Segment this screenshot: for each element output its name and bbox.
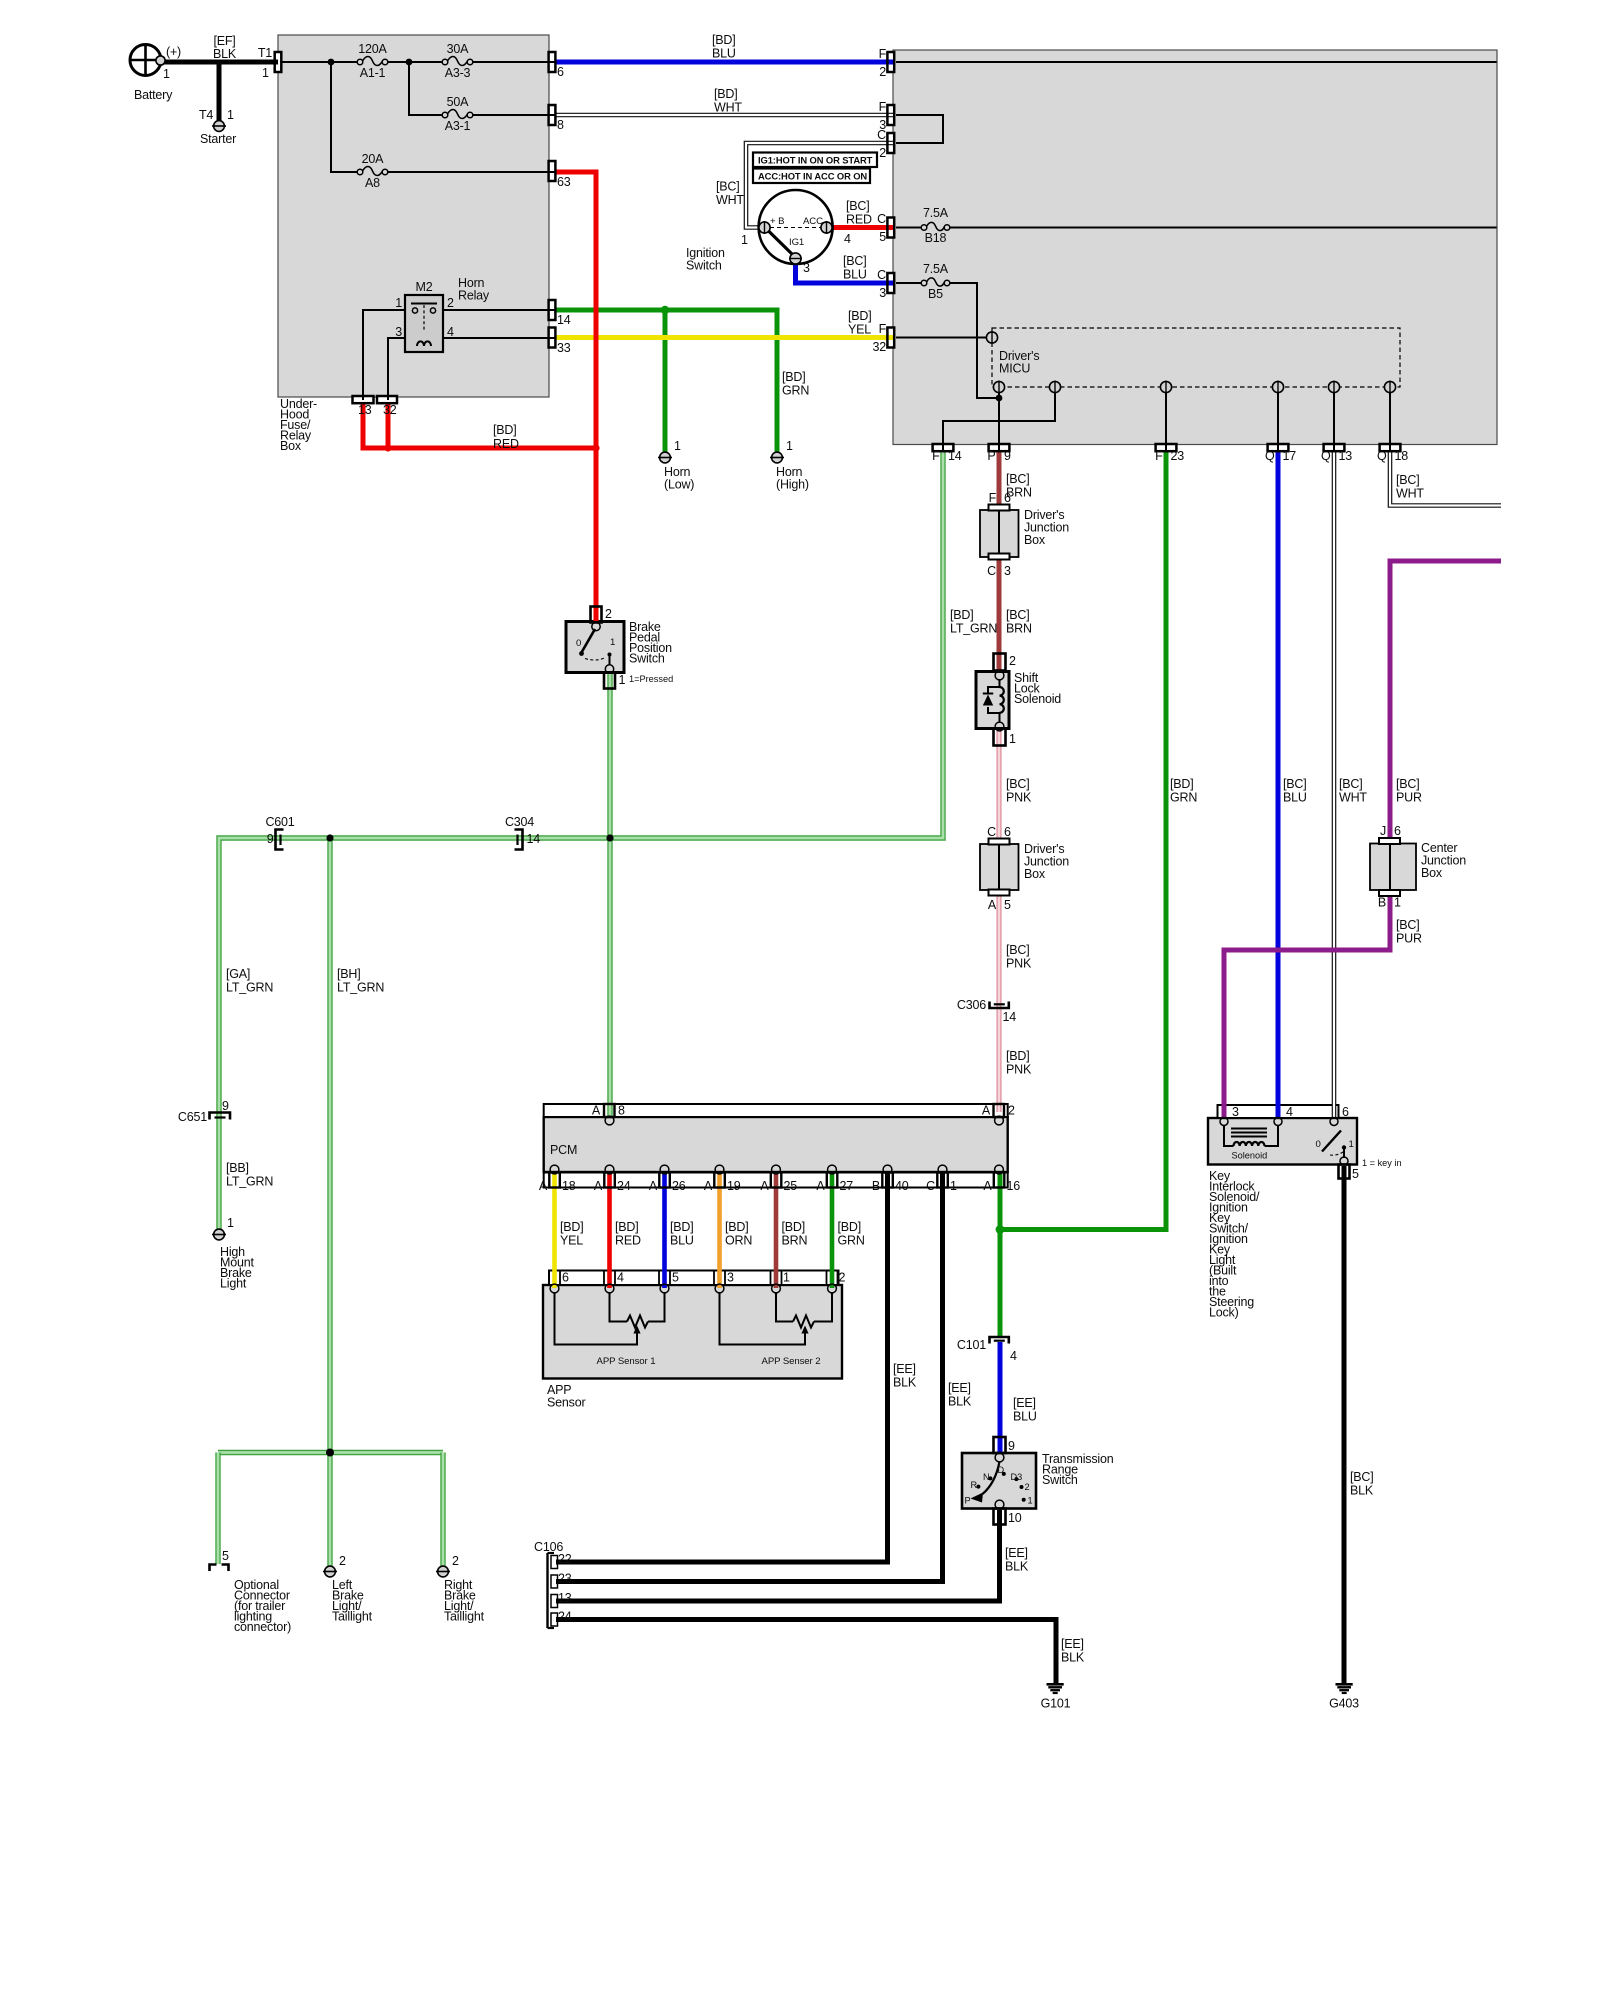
svg-text:Solenoid: Solenoid xyxy=(1232,1151,1268,1161)
node: lt green junction at brake light crossbar xyxy=(326,1449,334,1457)
svg-text:9: 9 xyxy=(1004,449,1011,463)
svg-text:B: B xyxy=(1378,896,1386,910)
svg-text:Taillight: Taillight xyxy=(332,1610,373,1624)
wire [BD] GRN: connector 14 to horns xyxy=(556,310,778,452)
svg-text:3: 3 xyxy=(1232,1105,1239,1119)
wire [BC] BLK: key interlock pin 5 to ground G403 xyxy=(1342,1166,1347,1683)
svg-text:[EF]: [EF] xyxy=(213,34,235,48)
svg-text:[EE]: [EE] xyxy=(1061,1637,1084,1651)
svg-text:27: 27 xyxy=(840,1179,854,1193)
svg-text:BLU: BLU xyxy=(712,47,736,61)
svg-text:BLK: BLK xyxy=(1350,1484,1374,1498)
svg-text:1: 1 xyxy=(395,296,402,310)
svg-text:4: 4 xyxy=(1010,1349,1017,1363)
diode xyxy=(983,695,993,706)
wire: optional connector drop xyxy=(215,1453,220,1565)
svg-text:P: P xyxy=(987,449,995,463)
right brake light terminal xyxy=(438,1566,449,1577)
PCM bottom connector A25 xyxy=(771,1173,782,1188)
driver's junction box (upper) xyxy=(980,510,1019,557)
ignition note box 1 xyxy=(753,153,877,168)
high mount brake light terminal xyxy=(214,1229,225,1240)
optional connector bracket xyxy=(210,1565,217,1572)
svg-text:3: 3 xyxy=(727,1271,734,1285)
PCM top connector A8 xyxy=(604,1104,615,1117)
svg-text:Box: Box xyxy=(1024,867,1046,881)
svg-text:F: F xyxy=(1155,449,1163,463)
svg-text:4: 4 xyxy=(617,1271,624,1285)
APP sensor 1 wiper xyxy=(555,1292,638,1345)
svg-text:C651: C651 xyxy=(178,1110,207,1124)
svg-text:WHT: WHT xyxy=(714,101,742,115)
wire: brake pedal switch output lt green xyxy=(607,674,612,1116)
shift lock connector 1 xyxy=(994,729,1006,746)
svg-text:[BD]: [BD] xyxy=(725,1220,749,1234)
svg-text:YEL: YEL xyxy=(848,323,871,337)
APP sensor 2 wiper xyxy=(720,1292,806,1345)
svg-text:BRN: BRN xyxy=(1006,622,1032,636)
svg-text:C101: C101 xyxy=(957,1338,986,1352)
fuse 7.5A B5 xyxy=(921,280,927,286)
key interlock solenoid leads xyxy=(1224,1126,1234,1147)
svg-text:A: A xyxy=(704,1179,713,1193)
node: junction B5 line and P9 stem xyxy=(996,395,1003,402)
connector Q13 slot border xyxy=(1324,444,1345,451)
svg-text:PUR: PUR xyxy=(1396,791,1422,805)
svg-text:20A: 20A xyxy=(362,152,385,166)
svg-text:F: F xyxy=(932,449,940,463)
svg-text:[BD]: [BD] xyxy=(950,608,974,622)
connector F23 slot border xyxy=(1156,444,1177,451)
connector C2 slot fill xyxy=(887,133,894,153)
svg-text:BLU: BLU xyxy=(670,1234,694,1248)
wire [BD] RED: connector 13 branch xyxy=(363,403,596,448)
connector 63 slot border xyxy=(549,161,556,181)
connector F2 slot fill xyxy=(887,52,894,72)
PCM bottom connector A27 xyxy=(827,1173,838,1188)
svg-text:[EE]: [EE] xyxy=(893,1362,916,1376)
svg-text:6: 6 xyxy=(557,65,564,79)
svg-text:[BH]: [BH] xyxy=(337,967,361,981)
svg-text:4: 4 xyxy=(447,325,454,339)
svg-text:RED: RED xyxy=(615,1234,641,1248)
wire: inside lower junction box xyxy=(998,845,1000,890)
svg-text:8: 8 xyxy=(618,1104,625,1118)
svg-text:9: 9 xyxy=(1008,1439,1015,1453)
node: lt green junction at brake switch riser xyxy=(606,834,613,841)
battery terminal xyxy=(156,56,165,65)
svg-text:[BD]: [BD] xyxy=(782,370,806,384)
key interlock solenoid core xyxy=(1231,1128,1267,1130)
svg-text:C306: C306 xyxy=(957,998,986,1012)
APP sensor pin circles xyxy=(550,1284,559,1293)
svg-text:Relay: Relay xyxy=(458,289,490,303)
svg-text:[EE]: [EE] xyxy=(948,1381,971,1395)
svg-text:A: A xyxy=(760,1179,769,1193)
APP connector pin slots xyxy=(548,1272,550,1285)
svg-text:18: 18 xyxy=(562,1179,576,1193)
svg-text:Q: Q xyxy=(1321,449,1331,463)
svg-text:[BD]: [BD] xyxy=(1006,1049,1030,1063)
svg-text:ORN: ORN xyxy=(725,1234,752,1248)
horn relay M2 coil xyxy=(417,341,431,346)
connector 14 slot fill xyxy=(549,300,556,320)
MICU terminal (yellow F32) xyxy=(986,332,997,343)
svg-text:1: 1 xyxy=(1394,896,1401,910)
svg-text:1: 1 xyxy=(262,66,269,80)
svg-text:C: C xyxy=(926,1179,935,1193)
node: horn wire junction xyxy=(661,306,669,314)
connector F14 slot border xyxy=(933,444,954,451)
svg-text:J: J xyxy=(1380,824,1386,838)
shift lock coil xyxy=(1000,687,1004,713)
connector Q13 slot fill xyxy=(1324,444,1345,451)
connector Q17 slot fill xyxy=(1268,444,1289,451)
wire [BC] WHT: Q18 to right edge xyxy=(1390,451,1501,506)
svg-text:2: 2 xyxy=(452,1554,459,1568)
connector C2 slot border xyxy=(887,133,894,153)
svg-text:Lock): Lock) xyxy=(1209,1306,1239,1320)
wire: MICU terminal 2 to F14 xyxy=(943,393,1055,451)
connector P9 slot fill xyxy=(989,444,1010,451)
horn relay M2 box xyxy=(405,295,443,352)
APP sensor connector bar xyxy=(549,1271,839,1286)
wire: fuse B5 line from C3 xyxy=(896,282,921,284)
svg-text:F: F xyxy=(879,100,887,114)
svg-text:[BD]: [BD] xyxy=(848,309,872,323)
PCM bottom connector B40 xyxy=(882,1173,893,1188)
PCM pin circles top xyxy=(605,1116,614,1125)
connector 13 slot border xyxy=(353,396,374,403)
wire [BC] BRN: P9 to driver's junction box F6 xyxy=(997,451,1002,506)
key interlock solenoid/ignition key switch box xyxy=(1208,1118,1357,1165)
wire [BD] LT_GRN: F14 down and across to C601/C304 xyxy=(219,451,943,1235)
svg-text:F: F xyxy=(879,322,887,336)
svg-text:BLK: BLK xyxy=(1061,1651,1085,1665)
wire [BC] WHT: C2 to ignition switch pin 1 xyxy=(746,143,893,228)
svg-text:LT_GRN: LT_GRN xyxy=(226,981,273,995)
svg-text:APP Senser 2: APP Senser 2 xyxy=(762,1356,821,1367)
wire [EE] BLK: PCM C1 to C106 pin 23 xyxy=(556,1174,943,1582)
shift lock connector 2 xyxy=(994,654,1006,671)
svg-text:Taillight: Taillight xyxy=(444,1610,485,1624)
junction box slot F6 xyxy=(989,505,1010,511)
connector C3 ignition slot fill xyxy=(887,273,894,293)
ignition switch lever xyxy=(766,229,793,256)
svg-text:C: C xyxy=(877,268,886,282)
svg-text:GRN: GRN xyxy=(838,1234,865,1248)
wire [BD] YEL: PCM A18 to APP pin 6 xyxy=(552,1174,557,1288)
fuse 30A A3-3 xyxy=(442,59,448,65)
svg-text:A: A xyxy=(983,1179,992,1193)
connector 6 box edge slot border xyxy=(549,52,556,72)
svg-text:13: 13 xyxy=(1339,449,1353,463)
svg-text:1 = key in: 1 = key in xyxy=(1362,1158,1402,1168)
svg-text:[BD]: [BD] xyxy=(714,87,738,101)
svg-text:[EE]: [EE] xyxy=(1013,1396,1036,1410)
svg-text:BLU: BLU xyxy=(1283,791,1307,805)
svg-text:14: 14 xyxy=(948,449,962,463)
wire [EE] BLU: C101 to transmission range switch pin 9 xyxy=(998,1342,1003,1454)
node: green junction A16/F23 xyxy=(996,1225,1005,1234)
wire [BD] BLU: PCM A26 to APP pin 5 xyxy=(662,1174,667,1288)
svg-text:D3: D3 xyxy=(1011,1472,1023,1482)
svg-text:2: 2 xyxy=(339,1554,346,1568)
svg-text:[BD]: [BD] xyxy=(493,423,517,437)
PCM bottom connector A16 xyxy=(994,1173,1005,1188)
wire [BC]/[BD] PNK: A5 to PCM A2 through C306 xyxy=(997,890,1002,1112)
svg-text:[BB]: [BB] xyxy=(226,1161,249,1175)
connector F32 slot fill xyxy=(887,328,894,348)
node: red junction at riser xyxy=(592,444,599,451)
fuse 50A A3-1 xyxy=(442,112,448,118)
wire: brake light crossbar xyxy=(218,1450,443,1455)
svg-text:B: B xyxy=(872,1179,880,1193)
connector Q18 slot fill xyxy=(1380,444,1401,451)
connector C5 slot fill xyxy=(887,218,894,238)
wire: MICU terminal stem to Q17 xyxy=(1277,393,1279,451)
svg-text:[BC]: [BC] xyxy=(1006,777,1030,791)
svg-text:24: 24 xyxy=(558,1610,572,1624)
wire: MICU terminal stem to Q18 xyxy=(1389,393,1391,451)
connector 32 slot fill xyxy=(377,396,397,403)
connector C3 ignition slot border xyxy=(887,273,894,293)
svg-text:3: 3 xyxy=(803,261,810,275)
wire [BD] BRN: PCM A25 to APP pin 1 xyxy=(774,1174,779,1288)
svg-text:7.5A: 7.5A xyxy=(923,206,949,220)
svg-text:Switch: Switch xyxy=(1042,1473,1078,1487)
fuse 7.5A B18 xyxy=(921,225,927,231)
svg-text:Q: Q xyxy=(1265,449,1275,463)
wire: F32 to MICU terminal xyxy=(896,337,987,339)
brake switch pivot circle xyxy=(592,622,600,630)
wire [BD] GRN: PCM A16 to C101 xyxy=(998,1174,1003,1338)
wire: battery branch down to starter xyxy=(217,60,222,122)
svg-text:3: 3 xyxy=(1004,564,1011,578)
svg-text:F: F xyxy=(989,491,997,505)
wire: 20A fuse to connector 63 xyxy=(388,171,555,173)
svg-text:[BC]: [BC] xyxy=(1006,472,1030,486)
svg-text:N: N xyxy=(983,1472,990,1482)
wire [BD] WHT: connector 8 to F3 xyxy=(556,113,894,118)
connector F3 slot fill xyxy=(887,105,894,125)
svg-text:[BC]: [BC] xyxy=(716,180,740,194)
TRS pin 10 circle xyxy=(995,1500,1004,1509)
svg-text:C: C xyxy=(877,212,886,226)
svg-text:PCM: PCM xyxy=(550,1143,577,1157)
wire: horn relay pin2 to connector 14 xyxy=(443,309,555,311)
svg-text:BLK: BLK xyxy=(1005,1560,1029,1574)
driver's MICU dashed outline xyxy=(992,328,1400,387)
svg-text:F: F xyxy=(879,47,887,61)
PCM bottom connector A18 xyxy=(549,1173,560,1188)
svg-text:LT_GRN: LT_GRN xyxy=(337,981,384,995)
wire [EE] BLK: PCM B40 to C106 pin 22 xyxy=(556,1174,888,1562)
APP sensor 2 resistor xyxy=(776,1292,793,1322)
wire [BC] BLU: ignition IG1 to C3 xyxy=(796,260,894,283)
wire [BC] WHT: Q13 to key interlock pin 6 xyxy=(1332,451,1337,1118)
svg-text:[BC]: [BC] xyxy=(1006,608,1030,622)
key interlock solenoid coil xyxy=(1234,1142,1265,1146)
ignition switch body xyxy=(759,190,833,264)
connector F23 slot fill xyxy=(1156,444,1177,451)
PCM top connector bar xyxy=(544,1104,1008,1117)
MICU terminal 3 xyxy=(1160,381,1171,392)
node: bus junction at 30A xyxy=(406,59,413,66)
svg-text:2: 2 xyxy=(1009,654,1016,668)
svg-text:Box: Box xyxy=(1024,533,1046,547)
wire: 30A fuse to connector 6 xyxy=(473,61,555,63)
svg-text:+ B: + B xyxy=(770,216,784,227)
driver's junction box (lower) xyxy=(980,844,1019,890)
svg-text:63: 63 xyxy=(557,175,571,189)
connector 33 slot border xyxy=(549,328,556,348)
svg-text:1=Pressed: 1=Pressed xyxy=(629,674,673,684)
connector C306 xyxy=(990,1002,1009,1009)
wire: horn relay pin3 to connector 32 xyxy=(388,338,405,400)
ignition terminal pin1 xyxy=(759,222,770,233)
connector T1 slot fill xyxy=(275,52,282,72)
svg-text:14: 14 xyxy=(527,832,541,846)
svg-text:PNK: PNK xyxy=(1006,791,1032,805)
PCM top connector A2 xyxy=(994,1104,1005,1117)
svg-text:R: R xyxy=(971,1480,978,1490)
brake switch lever xyxy=(582,629,596,653)
wire [BD] ORN: PCM A19 to APP pin 3 xyxy=(717,1174,722,1288)
wire: bus from F2 inside box xyxy=(896,61,1497,63)
svg-text:WHT: WHT xyxy=(1339,791,1367,805)
connector 33 slot fill xyxy=(549,328,556,348)
svg-text:Starter: Starter xyxy=(200,132,236,146)
svg-text:6: 6 xyxy=(1394,824,1401,838)
connector 8 slot fill xyxy=(549,105,556,125)
transmission range switch box xyxy=(962,1453,1036,1509)
connector 6 box edge slot fill xyxy=(549,52,556,72)
battery symbol xyxy=(130,45,161,76)
svg-text:Box: Box xyxy=(280,439,302,453)
MICU terminal 6 xyxy=(1384,381,1395,392)
svg-text:23: 23 xyxy=(558,1572,572,1586)
svg-text:BLU: BLU xyxy=(843,268,867,282)
svg-text:A: A xyxy=(649,1179,658,1193)
svg-text:18: 18 xyxy=(1395,449,1409,463)
center junction box slot B1 xyxy=(1379,890,1400,896)
wire [BC] PUR: right edge to center junction box J6 xyxy=(1390,561,1501,845)
svg-text:GRN: GRN xyxy=(782,384,809,398)
wire: fuse B18 line from C5 xyxy=(896,227,921,229)
svg-text:19: 19 xyxy=(727,1179,741,1193)
svg-text:2: 2 xyxy=(879,65,886,79)
key interlock pin circles xyxy=(1220,1118,1228,1126)
svg-text:4: 4 xyxy=(844,232,851,246)
junction box slot C3 xyxy=(989,554,1010,560)
wire [EE] BLK: TRS pin 10 to C106 pin 13 xyxy=(556,1510,1000,1601)
svg-text:2: 2 xyxy=(1008,1104,1015,1118)
svg-text:C304: C304 xyxy=(505,815,534,829)
svg-text:A3-1: A3-1 xyxy=(445,119,471,133)
svg-text:B18: B18 xyxy=(925,231,947,245)
svg-text:T1: T1 xyxy=(258,46,272,60)
node: bus junction at 120A xyxy=(328,59,335,66)
connector C101 xyxy=(990,1337,1009,1344)
svg-text:6: 6 xyxy=(1342,1105,1349,1119)
wire: branch to 20A fuse xyxy=(331,62,357,172)
TRS position dots xyxy=(976,1485,980,1489)
svg-text:ACC: ACC xyxy=(803,216,823,227)
wire [BH] LT_GRN: branch down to brake lights xyxy=(327,838,332,1570)
fuse 120A A1-1 xyxy=(357,59,363,65)
under-dash fuse/relay box xyxy=(893,50,1497,445)
svg-text:A8: A8 xyxy=(365,176,380,190)
svg-text:Q: Q xyxy=(1377,449,1387,463)
svg-text:BRN: BRN xyxy=(782,1234,808,1248)
key interlock switch lever xyxy=(1322,1131,1341,1152)
svg-text:Box: Box xyxy=(1421,866,1443,880)
wire [EE] BLK: C106 pin 24 to ground G101 xyxy=(556,1620,1056,1684)
svg-text:LT_GRN: LT_GRN xyxy=(950,622,997,636)
wire [BD] GRN: PCM A27 to APP pin 2 xyxy=(830,1174,835,1288)
svg-text:0: 0 xyxy=(1316,1139,1321,1150)
svg-text:1: 1 xyxy=(227,1216,234,1230)
connector C304 xyxy=(515,830,523,850)
svg-text:[BD]: [BD] xyxy=(712,33,736,47)
svg-text:(High): (High) xyxy=(776,478,809,492)
svg-text:A3-3: A3-3 xyxy=(445,66,471,80)
svg-text:BLU: BLU xyxy=(1013,1410,1037,1424)
wire [BC] PNK: shift lock pin1 to C6 xyxy=(997,730,1002,845)
svg-text:ACC:HOT IN ACC OR ON: ACC:HOT IN ACC OR ON xyxy=(758,171,867,182)
connector F32 slot border xyxy=(887,328,894,348)
wire: MICU terminal 1 stem to P9 xyxy=(998,393,1000,451)
shift lock solenoid internals: top lead xyxy=(995,671,1004,680)
svg-text:connector): connector) xyxy=(234,1620,291,1634)
svg-text:(+): (+) xyxy=(166,45,181,59)
svg-text:A1-1: A1-1 xyxy=(360,66,386,80)
svg-text:32: 32 xyxy=(872,340,886,354)
svg-text:23: 23 xyxy=(1171,449,1185,463)
connector 8 slot border xyxy=(549,105,556,125)
svg-text:[BC]: [BC] xyxy=(1396,918,1420,932)
wire [BD] RED: connector 32 branch xyxy=(386,403,391,448)
svg-text:10: 10 xyxy=(1008,1511,1022,1525)
svg-text:Switch: Switch xyxy=(686,259,722,273)
wire [BC] RED: ignition ACC to C5 xyxy=(831,225,893,230)
svg-text:[BD]: [BD] xyxy=(615,1220,639,1234)
svg-text:RED: RED xyxy=(493,437,519,451)
wire [BD] RED: connector 63 to brake pedal switch xyxy=(556,172,597,621)
key interlock top connector bar xyxy=(1218,1105,1339,1118)
MICU terminal 5 xyxy=(1328,381,1339,392)
svg-text:PNK: PNK xyxy=(1006,957,1032,971)
svg-text:A: A xyxy=(594,1179,603,1193)
horn (high) terminal xyxy=(772,452,783,463)
svg-text:5: 5 xyxy=(222,1549,229,1563)
wire [BC] BRN: C3 to shift lock solenoid pin 2 xyxy=(997,557,1002,670)
svg-text:Sensor: Sensor xyxy=(547,1396,585,1410)
svg-text:7.5A: 7.5A xyxy=(923,262,949,276)
svg-text:1: 1 xyxy=(619,673,626,687)
APP sensor 1 resistor xyxy=(610,1292,628,1322)
svg-text:14: 14 xyxy=(557,313,571,327)
APP sensor box xyxy=(543,1285,842,1379)
wire: right brake light drop xyxy=(440,1453,445,1571)
svg-text:Battery: Battery xyxy=(134,88,173,102)
wire: between 120A fuse and 30A fuse xyxy=(388,61,442,63)
brake switch connector 1 xyxy=(604,673,615,689)
brake switch connector 2 xyxy=(591,607,602,623)
transmission range switch pivot xyxy=(995,1453,1004,1462)
svg-text:A: A xyxy=(816,1179,825,1193)
